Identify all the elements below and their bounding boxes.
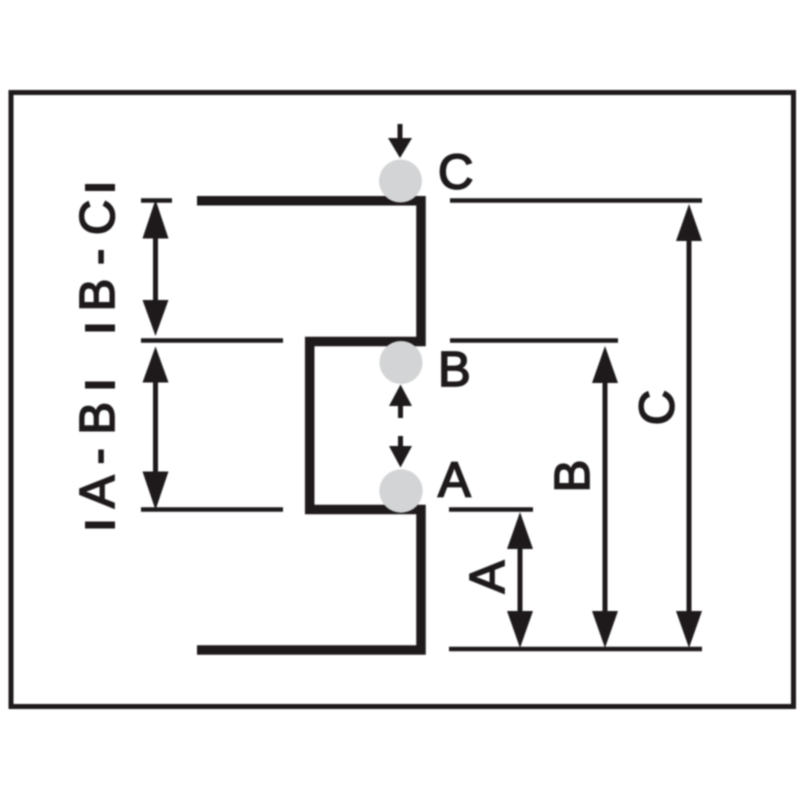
svg-text:B - C: B - C	[71, 200, 125, 312]
step profile workpiece	[197, 201, 421, 650]
absolute-value bar below rotated B - C	[85, 325, 115, 332]
absolute-value bar above rotated A - B	[85, 382, 115, 389]
absolute-value bar above rotated B - C	[85, 184, 115, 191]
right dimension line at level C	[450, 198, 702, 203]
left double arrow |B - C|	[143, 200, 169, 337]
left extension tick at level C	[141, 198, 172, 203]
small down arrow above ball A	[389, 436, 412, 468]
svg-text:A: A	[438, 454, 471, 508]
probe contact ball B	[380, 341, 423, 384]
right double arrow C	[676, 204, 702, 648]
svg-text:B: B	[438, 343, 471, 397]
svg-text:A - B: A - B	[71, 402, 125, 508]
left extension line at level B	[141, 338, 283, 343]
left extension line at level A	[141, 507, 283, 512]
right double arrow B	[592, 346, 618, 648]
svg-text:B: B	[546, 460, 600, 493]
probe contact ball C	[379, 160, 422, 203]
right dimension line at level A	[449, 507, 533, 512]
small down arrow above ball C	[388, 124, 412, 158]
svg-text:C: C	[631, 390, 685, 425]
absolute-value bar below rotated A - B	[85, 522, 115, 529]
outer border frame	[11, 93, 794, 707]
svg-text:A: A	[461, 560, 515, 593]
right dimension line at level B	[450, 338, 618, 343]
right baseline dimension line	[449, 647, 702, 652]
small up arrow below ball B	[389, 385, 412, 419]
left double arrow |A - B|	[143, 347, 169, 511]
probe contact ball A	[379, 469, 422, 512]
right double arrow A	[507, 512, 533, 648]
svg-text:C: C	[438, 146, 473, 200]
